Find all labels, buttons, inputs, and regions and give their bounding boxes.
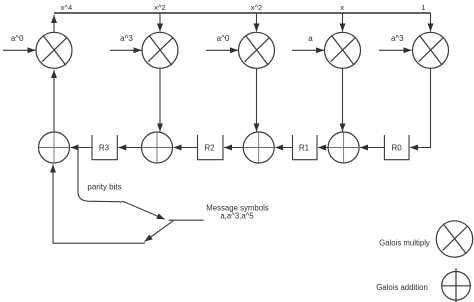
svg-text:R0: R0 bbox=[391, 143, 402, 152]
wire: R3 out to A1 bbox=[71, 147, 93, 149]
wire: a^3 input into G5 bbox=[379, 49, 412, 51]
wire: R1 out to A3 bbox=[275, 147, 292, 149]
svg-text:R1: R1 bbox=[299, 143, 310, 152]
Galois multiplier G3 bbox=[239, 32, 275, 68]
svg-text:x^2: x^2 bbox=[251, 3, 262, 12]
svg-text:R3: R3 bbox=[99, 143, 110, 152]
svg-text:x^2: x^2 bbox=[154, 3, 165, 12]
wire: G2 output down into A2 bbox=[159, 68, 161, 131]
wire: message symbols input line bbox=[169, 219, 204, 221]
wire: R2 out to A2 bbox=[174, 147, 198, 149]
wire: bus drop into G4 bbox=[342, 13, 344, 32]
Galois multiplier G2 bbox=[142, 32, 178, 68]
Galois adder A1 bbox=[39, 132, 70, 163]
wire: A2 out to R3 bbox=[118, 147, 141, 149]
Galois multiplier G1 bbox=[36, 32, 72, 68]
svg-text:1: 1 bbox=[421, 3, 425, 12]
legend symbol Galois multiply bbox=[436, 221, 472, 257]
Galois multiplier G4 bbox=[325, 32, 361, 68]
wire: bus drop into G3 bbox=[256, 13, 258, 32]
svg-text:Galois addition: Galois addition bbox=[376, 283, 428, 292]
wire: A3 out to R2 bbox=[224, 147, 243, 149]
svg-text:a,a^3,a^5: a,a^3,a^5 bbox=[220, 212, 254, 221]
Galois adder A4 bbox=[328, 132, 359, 163]
wire: G3 output down into A3 bbox=[256, 68, 258, 131]
Galois adder A3 bbox=[243, 132, 274, 163]
wire: switch arm from message line down-left bbox=[145, 220, 175, 241]
register R3 bbox=[92, 135, 117, 160]
wire: top feedback bus bbox=[54, 12, 431, 14]
svg-text:a^0: a^0 bbox=[11, 34, 24, 43]
register R0 bbox=[384, 135, 409, 160]
register R2 bbox=[198, 135, 224, 160]
wire: a^3 input into G2 bbox=[110, 49, 142, 51]
legend symbol Galois addition bbox=[442, 268, 471, 302]
wire: a^0 input into G1 bbox=[3, 49, 36, 51]
wire: bottom return into A1 bbox=[53, 165, 145, 244]
svg-text:a^0: a^0 bbox=[217, 34, 230, 43]
wire: bus drop into G2 bbox=[159, 13, 161, 32]
svg-text:a^3: a^3 bbox=[391, 34, 404, 43]
wire: a^0 input into G3 bbox=[206, 49, 238, 51]
svg-text:a^3: a^3 bbox=[120, 34, 133, 43]
svg-text:x: x bbox=[340, 3, 344, 12]
wire: G5 output down and left into R0 bbox=[410, 68, 431, 147]
svg-text:x^4: x^4 bbox=[61, 3, 72, 12]
wire: A1 output up into G1 bbox=[53, 70, 55, 132]
wire: G4 output down into A4 bbox=[342, 68, 344, 131]
register R1 bbox=[293, 135, 318, 160]
Galois adder A2 bbox=[142, 132, 173, 163]
svg-text:a: a bbox=[308, 34, 313, 43]
Galois multiplier G5 bbox=[413, 32, 449, 68]
svg-text:Galois multiply: Galois multiply bbox=[379, 238, 430, 247]
svg-text:R2: R2 bbox=[204, 143, 215, 152]
wire: a input into G4 bbox=[292, 49, 324, 51]
wire: R0 out to A4 bbox=[360, 147, 384, 149]
wire: parity tap down to output switch bbox=[78, 148, 165, 220]
wire: A4 out to R1 bbox=[318, 147, 328, 149]
wire: G1 output up to bus bbox=[53, 15, 55, 32]
svg-text:parity bits: parity bits bbox=[87, 182, 121, 191]
wire: bus drop into G5 bbox=[430, 13, 432, 32]
